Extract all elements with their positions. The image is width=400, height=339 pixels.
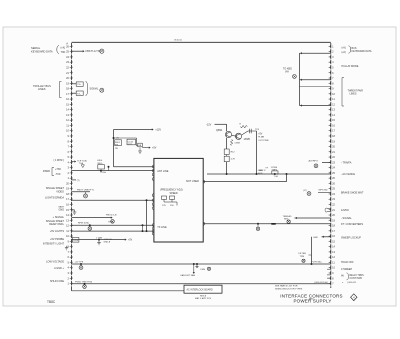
svg-text:- SIGNAL: - SIGNAL [341, 217, 352, 220]
test point TP12 (FMS) [181, 267, 211, 277]
net label SINGLE SHEET (left margin) [46, 220, 65, 226]
svg-text:INTENSITY LIGHT: INTENSITY LIGHT [43, 243, 65, 246]
svg-text:SPEED: SPEED [170, 192, 178, 195]
net label ( 1 MHZ ) (left margin) [53, 159, 64, 162]
pin (U1 left edge) [152, 230, 154, 233]
label RELAY TRNS bracket (right) [327, 273, 364, 280]
resistor R11 (zigzag) [240, 124, 248, 129]
wire KBD loop 1 (J2 p2) [300, 52, 331, 54]
net label HOLD OFF (right) [341, 261, 354, 264]
svg-text:AC INTERLOCK BOARD: AC INTERLOCK BOARD [187, 288, 213, 291]
capacitor C2 [116, 137, 136, 146]
wire base link Q1-Q2 [232, 135, 237, 136]
svg-text:FAN EXIT FAN: FAN EXIT FAN [181, 274, 196, 277]
svg-text:(+K): (+K) [61, 47, 66, 50]
svg-text:( 605-011: ( 605-011 [347, 282, 357, 284]
fuse F1 [72, 238, 79, 243]
svg-text:FMS: FMS [201, 269, 206, 271]
pin (U1 right edge) [203, 222, 205, 225]
svg-text:PLMB: PLMB [258, 137, 264, 139]
note under AC board [195, 295, 212, 301]
connector J2 (right strip) [329, 43, 336, 288]
net label LOW VOLTAGE (left margin) [46, 261, 64, 264]
svg-text:BRAKE SHOE MNT: BRAKE SHOE MNT [341, 191, 364, 194]
svg-text:VIA: VIA [285, 71, 289, 74]
svg-text:-12V: -12V [206, 123, 212, 126]
svg-text:GND: GND [58, 208, 64, 211]
net label + SIGNAL (left margin) [53, 216, 65, 219]
wire video line (J1 to U1) [72, 199, 154, 201]
wire output column [256, 131, 258, 174]
pin (U1 left edge) [152, 207, 154, 210]
net label INTENSITY LIGHT (left margin) [43, 243, 65, 246]
label BUS KEYBOARD DATA (right) [342, 46, 372, 54]
ref Q8M5 (Q2) [244, 139, 251, 141]
net label +5V TO FAN (right) [341, 161, 352, 164]
net label +5V PROBE (left margin) [50, 238, 64, 241]
svg-text:+5V LIGHTS: +5V LIGHTS [50, 230, 65, 233]
test point TP8 (fan) [314, 164, 318, 168]
wire top bus (shield) [72, 41, 331, 43]
svg-text:OUT PWR: OUT PWR [258, 140, 269, 142]
fuse F2 [115, 140, 122, 150]
net label SHLD FUSE (left margin) [50, 280, 64, 283]
svg-text:AV: AV [341, 274, 344, 277]
label RSNR bracket (left margin) [43, 168, 61, 176]
wire KBD loop 3 (J2 p8) [300, 85, 331, 87]
svg-text:+TXD: +TXD [55, 169, 61, 171]
svg-text:P.T. CONVERTERS: P.T. CONVERTERS [341, 223, 363, 226]
wire KBD vertical [299, 53, 301, 105]
svg-text:(7): (7) [77, 180, 80, 182]
svg-text:TX+: TX+ [77, 84, 82, 86]
svg-text:KBD TLG TXD: KBD TLG TXD [86, 50, 102, 53]
svg-text:VIDEO: VIDEO [56, 190, 64, 193]
svg-text:(17): (17) [303, 190, 307, 192]
net label +5V REG (output) [255, 129, 269, 142]
pin (U1 left edge) [152, 169, 154, 172]
connector J1 (left strip) [66, 43, 72, 288]
transistor Q2 [235, 133, 241, 139]
svg-text:SHLD FUSE: SHLD FUSE [50, 280, 64, 283]
pin (U1 left edge) [152, 232, 154, 235]
wire KBD TXD (J1 pin 25) [72, 50, 102, 53]
svg-text:-TXD: -TXD [55, 174, 61, 176]
svg-text:B (101): B (101) [175, 40, 182, 42]
pin (U1 left edge) [152, 173, 154, 176]
svg-text:READY/INFL: READY/INFL [49, 223, 64, 226]
label SPEED ADJ (inside U1) [170, 192, 178, 195]
svg-text:SIGNAL: SIGNAL [90, 88, 99, 91]
svg-text:TP4 A: TP4 A [100, 171, 106, 174]
svg-text:FILTER: FILTER [299, 253, 307, 255]
ground (low voltage rail) [195, 263, 198, 268]
test point TP9 (brake) [303, 190, 311, 195]
down arrow (fan exit) [193, 263, 195, 274]
svg-text:SEE PARTS LIST FOR: SEE PARTS LIST FOR [275, 285, 298, 288]
svg-text:TX LINE: TX LINE [157, 226, 167, 229]
diode CR1 [137, 143, 143, 147]
svg-text:+5V: +5V [128, 240, 133, 242]
svg-text:- AC FENCE: - AC FENCE [341, 173, 355, 176]
svg-text:MAY 4, APR 1974: MAY 4, APR 1974 [195, 297, 212, 300]
svg-text:TXD: TXD [61, 51, 66, 54]
net label SINGLE SHEET (left margin) [46, 187, 65, 193]
note SEE PARTS LIST [275, 285, 303, 291]
svg-text:+5V TP8: +5V TP8 [75, 261, 84, 263]
svg-text:TB8C: TB8C [47, 300, 56, 304]
pin (U1 left edge) [152, 178, 154, 181]
regulator stack VR1 [97, 160, 110, 174]
label SERIAL KEYBOARD DATA (left margin) [31, 46, 66, 55]
test point TP7 (KBD) [293, 75, 297, 79]
label TROLLEY BUS LINES (left margin) [33, 82, 62, 98]
svg-text:12VDC: 12VDC [341, 209, 349, 212]
svg-text:ALT/RPG: ALT/RPG [309, 159, 318, 162]
wire main rail (to J2) [207, 173, 331, 175]
svg-text:+ SIGNAL: + SIGNAL [53, 216, 65, 219]
wire +12V drop (vertical) [113, 130, 115, 167]
wire stub (J1 spare) [72, 180, 80, 182]
wire branch drop [136, 138, 138, 146]
filter module FL1 [259, 167, 279, 178]
svg-text:+12V: +12V [155, 129, 161, 132]
pin (U1 left edge) [152, 203, 154, 206]
svg-text:PULL/R MODE: PULL/R MODE [342, 65, 359, 68]
label 12VDC bracket (right) [325, 208, 349, 213]
svg-text:( 605-0101-A ): ( 605-0101-A ) [314, 281, 328, 284]
wire probe line (J1) [72, 238, 133, 241]
pin (U1 left edge) [152, 199, 154, 202]
bypass wire 2 (vertical) [142, 224, 144, 232]
wire TX+ (J1) [72, 83, 77, 85]
pin (U1 left edge) [152, 194, 154, 197]
test point (trim) [287, 220, 290, 223]
net label FLTR GA (right) [312, 261, 324, 264]
test point (converter) [256, 223, 259, 231]
pin (U1 left edge) [152, 227, 154, 230]
test point TP6 [88, 224, 92, 230]
bypass wire (vertical) [146, 199, 148, 232]
svg-text:FLTR GA +: FLTR GA + [312, 261, 324, 264]
bracket + SIGNAL label [86, 81, 99, 96]
net label -12V [206, 123, 212, 126]
resistor R12 (base divider) [224, 138, 235, 174]
wire -12V rail [215, 124, 227, 131]
wire shield rail (bottom) [72, 283, 331, 285]
wire brake stub (J2) [318, 190, 331, 193]
wire lights line (J1 to U1) [72, 230, 154, 232]
svg-text:LINES: LINES [38, 87, 46, 91]
wire ready line (J1 to U1) [72, 222, 154, 226]
wire signal (J2) [283, 215, 331, 221]
svg-text:KEYBOARD DATA: KEYBOARD DATA [31, 49, 53, 53]
svg-text:LIGHTS/CRMDA: LIGHTS/CRMDA [45, 197, 64, 200]
wire KBD loop 4 (J2 p12) [300, 104, 331, 106]
title INTERFACE CONNECTORS AND POWER SUPPLY [280, 293, 342, 303]
wire +12V feed (J1 to U1) [72, 170, 154, 172]
ground (5V branch) [138, 148, 142, 154]
svg-text:LOW VOLTAGE: LOW VOLTAGE [46, 261, 64, 264]
svg-text:TPM: TPM [300, 256, 305, 258]
filter C1 [96, 236, 112, 245]
filter FL2 (sweep) [299, 253, 312, 262]
net label +SIGNAL (right) [341, 217, 352, 220]
ground sym (lights) [58, 206, 76, 215]
sheet code TB8C [47, 300, 56, 304]
svg-text:TX-: TX- [77, 93, 81, 95]
svg-text:- TRN/FA: - TRN/FA [341, 161, 352, 164]
wire TX- (J1) [72, 92, 77, 94]
net label BRAKE SHOE (right) [341, 191, 364, 194]
svg-text:RPM 107A: RPM 107A [78, 222, 89, 225]
test point TP11 (+5V TP8) [75, 261, 84, 269]
wire NOT USED (U1 to rail) [203, 173, 287, 182]
wire J1 bottom to AC board [72, 288, 185, 291]
test point TP1 (KBD TXD) [100, 49, 104, 53]
node A (top of J1) [66, 42, 68, 46]
svg-text:GN2 X: GN2 X [259, 170, 266, 172]
pin label TX LINE (inside U1) [157, 226, 167, 229]
pin label ANT LINE (inside U1) [157, 170, 169, 173]
svg-text:A GND +: A GND + [54, 267, 64, 270]
resistor R13 (emitter) [230, 140, 240, 146]
note on top bus [175, 40, 182, 42]
label TO KBD VIA [283, 68, 292, 74]
terminal block TX+ [76, 82, 83, 86]
capacitor C3 [250, 129, 252, 133]
svg-text:NOT USED: NOT USED [186, 180, 199, 183]
svg-text:SEMICONDUCTOR TYPES: SEMICONDUCTOR TYPES [275, 288, 303, 290]
label NOT USED (U1 right edge) [186, 180, 199, 183]
svg-text:( 1 MHZ ): ( 1 MHZ ) [53, 159, 64, 162]
net label +12V [155, 129, 161, 132]
svg-text:HOLD OFF: HOLD OFF [341, 261, 354, 264]
svg-text:A: A [66, 42, 68, 46]
wire FMOT sense (J1) [72, 190, 96, 192]
svg-text:LINES: LINES [350, 93, 357, 96]
net label A GND + (left margin) [54, 267, 64, 270]
svg-text:GATE: GATE [58, 206, 64, 209]
svg-text:RSNR: RSNR [43, 170, 50, 173]
label THREAT PAIR LINES (right) [342, 78, 363, 107]
potentiometer R20 (inside U1) [162, 196, 178, 207]
net label PT CONTROL (right) [341, 223, 363, 226]
net label SWEEP LOCATION (right) [341, 236, 361, 239]
svg-text:POWER SUPPLY: POWER SUPPLY [293, 299, 331, 304]
revision diamond [351, 294, 357, 301]
svg-text:FMOD 2-B: FMOD 2-B [106, 215, 117, 217]
svg-text:Q8M4: Q8M4 [216, 130, 223, 132]
note part numbers row [314, 281, 357, 284]
wire +5V out [142, 146, 156, 149]
transistor Q1 [225, 131, 231, 137]
ref Q8M4 (Q1) [216, 130, 223, 132]
wire KBD loop 2 (J2 p7) [300, 79, 331, 81]
svg-text:(+K): (+K) [342, 47, 347, 49]
svg-text:+5V PROBE: +5V PROBE [50, 238, 64, 241]
test point TP13 (POS/NEG) [75, 282, 93, 289]
net label GND (left margin) [58, 208, 64, 211]
svg-text:TRIM AD: TRIM AD [283, 215, 292, 218]
wire +5V branch [113, 137, 137, 139]
net label +5V LIGHTS (left margin) [50, 230, 65, 233]
pin (U1 left edge) [152, 165, 154, 168]
test point TP2 (SIGNAL) [100, 88, 104, 92]
net label -AC FENCE (right) [341, 173, 355, 176]
svg-text:(+K): (+K) [342, 52, 347, 54]
svg-text:+5V: +5V [152, 147, 157, 150]
svg-text:GND A: GND A [104, 240, 111, 243]
net label GND SEN [258, 170, 263, 175]
module AC INTERLOCK BOARD [184, 285, 222, 293]
test point TP5 [111, 220, 115, 224]
svg-text:WPS MD: WPS MD [319, 190, 328, 192]
pin (U1 right edge) [203, 180, 205, 183]
svg-text:SWEEP LOCKUP: SWEEP LOCKUP [341, 236, 361, 239]
wire gnd sweep (J2) [313, 236, 331, 239]
pin arrow TLR (J1) [72, 160, 88, 168]
wire feed B (to U1) [114, 166, 154, 168]
svg-text:CONT PWR: CONT PWR [350, 278, 363, 280]
wire sweep drop (vertical) [311, 237, 313, 265]
svg-text:ANT LINE: ANT LINE [157, 170, 169, 173]
wire collector Q2 to rail [242, 131, 257, 135]
test point TP4 [84, 192, 88, 198]
svg-text:KEYBOARD DATA: KEYBOARD DATA [352, 50, 372, 53]
svg-text:REV A: REV A [200, 295, 207, 298]
label PULL/R MODE (right) [342, 65, 359, 68]
wire converter line (U1 to J2) [203, 223, 331, 225]
svg-text:4.7K: 4.7K [231, 159, 236, 161]
svg-text:FMOT UNEXP TL: FMOT UNEXP TL [77, 190, 95, 192]
pin (U1 left edge) [152, 224, 154, 227]
label FREQUENCY ADJ (inside U1) [160, 189, 183, 192]
svg-text:2W: 2W [115, 148, 118, 150]
svg-text:GND: GND [313, 237, 318, 239]
svg-text:TP05: TP05 [73, 240, 79, 242]
terminal block TX- [76, 91, 83, 95]
wire fan feed (J2) [309, 159, 331, 162]
net label O SWEEP (right) [327, 268, 352, 271]
svg-text:RELAY TRNS: RELAY TRNS [350, 274, 365, 277]
svg-text:CWM: CWM [235, 143, 240, 145]
svg-text:1/8M5: 1/8M5 [244, 139, 251, 141]
net label LIGHTS/CRMDA (left margin) [45, 197, 64, 200]
svg-text:+5V: +5V [258, 134, 263, 136]
ground mark (intensity pin) [65, 246, 68, 250]
wire FMOD 2-B (J1) [72, 215, 117, 224]
svg-text:0 SWEEP: 0 SWEEP [341, 268, 352, 271]
wire low-voltage rail [72, 263, 331, 265]
module U1 (regulator block) [154, 158, 203, 242]
wire +12V rail [114, 128, 154, 130]
